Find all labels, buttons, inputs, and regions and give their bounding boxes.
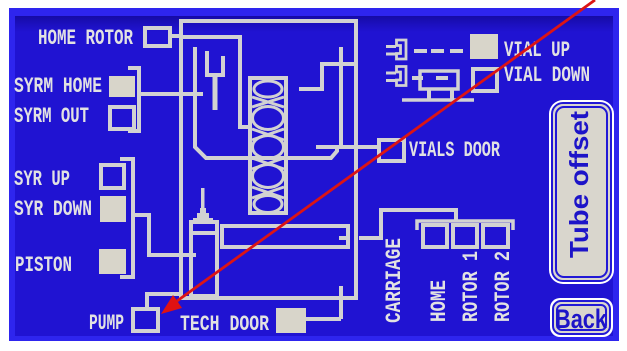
checkbox HOME	[423, 225, 447, 247]
svg-text:VIALS DOOR: VIALS DOOR	[409, 138, 501, 163]
svg-text:HOME: HOME	[427, 280, 452, 322]
carousel vial circle 2	[253, 107, 284, 130]
vial holder base line	[402, 98, 474, 102]
svg-text:PUMP: PUMP	[89, 311, 124, 336]
syringe cap steps	[193, 208, 213, 223]
vial holder legs	[427, 89, 431, 100]
carousel vial circle 3	[253, 136, 284, 159]
wire HOME ROTOR to wall	[170, 34, 181, 38]
machine outer wall	[181, 21, 356, 298]
svg-text:Back: Back	[555, 304, 608, 334]
button Back	[550, 298, 613, 337]
carousel bowtie 2	[252, 129, 284, 140]
vial holder box	[420, 71, 458, 89]
dashes in vial holder	[412, 76, 448, 80]
svg-text:HOME ROTOR: HOME ROTOR	[38, 26, 134, 51]
checkbox VIAL DOWN	[473, 69, 497, 91]
checkbox SYRM HOME filled	[109, 76, 135, 97]
plug VIAL UP	[386, 40, 406, 59]
inner vertical right	[339, 47, 343, 146]
button Tube offset	[549, 100, 614, 284]
checkbox VIAL UP filled	[470, 34, 498, 59]
svg-text:SYR DOWN: SYR DOWN	[14, 197, 92, 222]
screen top inner shadow	[15, 16, 613, 32]
wire SYRM bracket to arm	[141, 92, 203, 96]
svg-text:SYRM HOME: SYRM HOME	[14, 74, 102, 99]
labels vertical	[382, 238, 516, 323]
carousel bowtie 1	[252, 97, 284, 107]
svg-text:TECH DOOR: TECH DOOR	[180, 312, 270, 337]
carousel vial circle 4	[253, 165, 284, 188]
svg-text:SYR UP: SYR UP	[14, 167, 70, 192]
wire TECH DOOR box	[306, 286, 341, 319]
red arrowhead	[161, 295, 182, 314]
red annotation arrow line	[177, 0, 595, 301]
syringe body	[191, 222, 217, 296]
checkboxes filled	[99, 34, 498, 333]
wire PUMP box to wall	[147, 294, 182, 308]
arm vertical bar	[195, 47, 337, 158]
svg-text:SYRM OUT: SYRM OUT	[14, 104, 89, 129]
wire to VIALS DOOR box	[316, 145, 378, 149]
checkbox PISTON filled	[99, 249, 126, 274]
svg-text:PISTON: PISTON	[15, 253, 72, 278]
syringe needle	[201, 188, 205, 209]
gripper fork right prong	[221, 56, 225, 73]
carousel vial circle 5	[254, 196, 282, 213]
zigzag wire top right	[299, 64, 356, 89]
inner wall line	[183, 37, 252, 127]
syringe plunger line	[191, 231, 217, 235]
wire carriage to checkbox bracket	[359, 210, 456, 238]
plug VIAL DOWN	[386, 67, 406, 86]
carousel bowtie 3	[252, 158, 284, 169]
svg-text:Tube offset: Tube offset	[564, 111, 594, 258]
checkbox ROTOR 1	[453, 225, 477, 247]
svg-text:CARRIAGE: CARRIAGE	[382, 238, 407, 323]
checkbox VIALS DOOR	[379, 140, 404, 161]
svg-text:ROTOR 1: ROTOR 1	[459, 251, 484, 322]
checkbox TECH DOOR filled	[276, 308, 306, 333]
gripper fork bottom	[205, 73, 225, 77]
svg-text:ROTOR 2: ROTOR 2	[491, 251, 516, 322]
carousel circles	[252, 81, 284, 213]
gripper fork left prong	[205, 51, 209, 73]
checkboxes hollow	[101, 28, 508, 331]
bracket SYRM boxes	[128, 68, 139, 131]
checkbox PUMP	[133, 309, 158, 331]
carousel vial ellipse 1	[254, 81, 282, 97]
carriage bar notch	[339, 236, 346, 240]
carousel bowtie 4	[252, 187, 284, 198]
checkbox SYR DOWN filled	[100, 196, 126, 222]
wire SYR bracket to syringe	[135, 215, 196, 255]
checkbox SYR UP	[101, 165, 124, 188]
svg-text:VIAL DOWN: VIAL DOWN	[504, 63, 590, 88]
checkbox ROTOR 2	[483, 225, 508, 247]
bracket SYR boxes	[120, 159, 133, 277]
gripper fork stem	[213, 77, 218, 110]
carriage bar	[222, 226, 348, 247]
carousel housing	[250, 78, 286, 213]
checkbox SYRM OUT	[110, 107, 134, 129]
bracket over HOME/ROTOR boxes	[417, 221, 513, 230]
checkbox HOME ROTOR	[145, 28, 170, 46]
dashes VIAL UP	[414, 49, 463, 53]
